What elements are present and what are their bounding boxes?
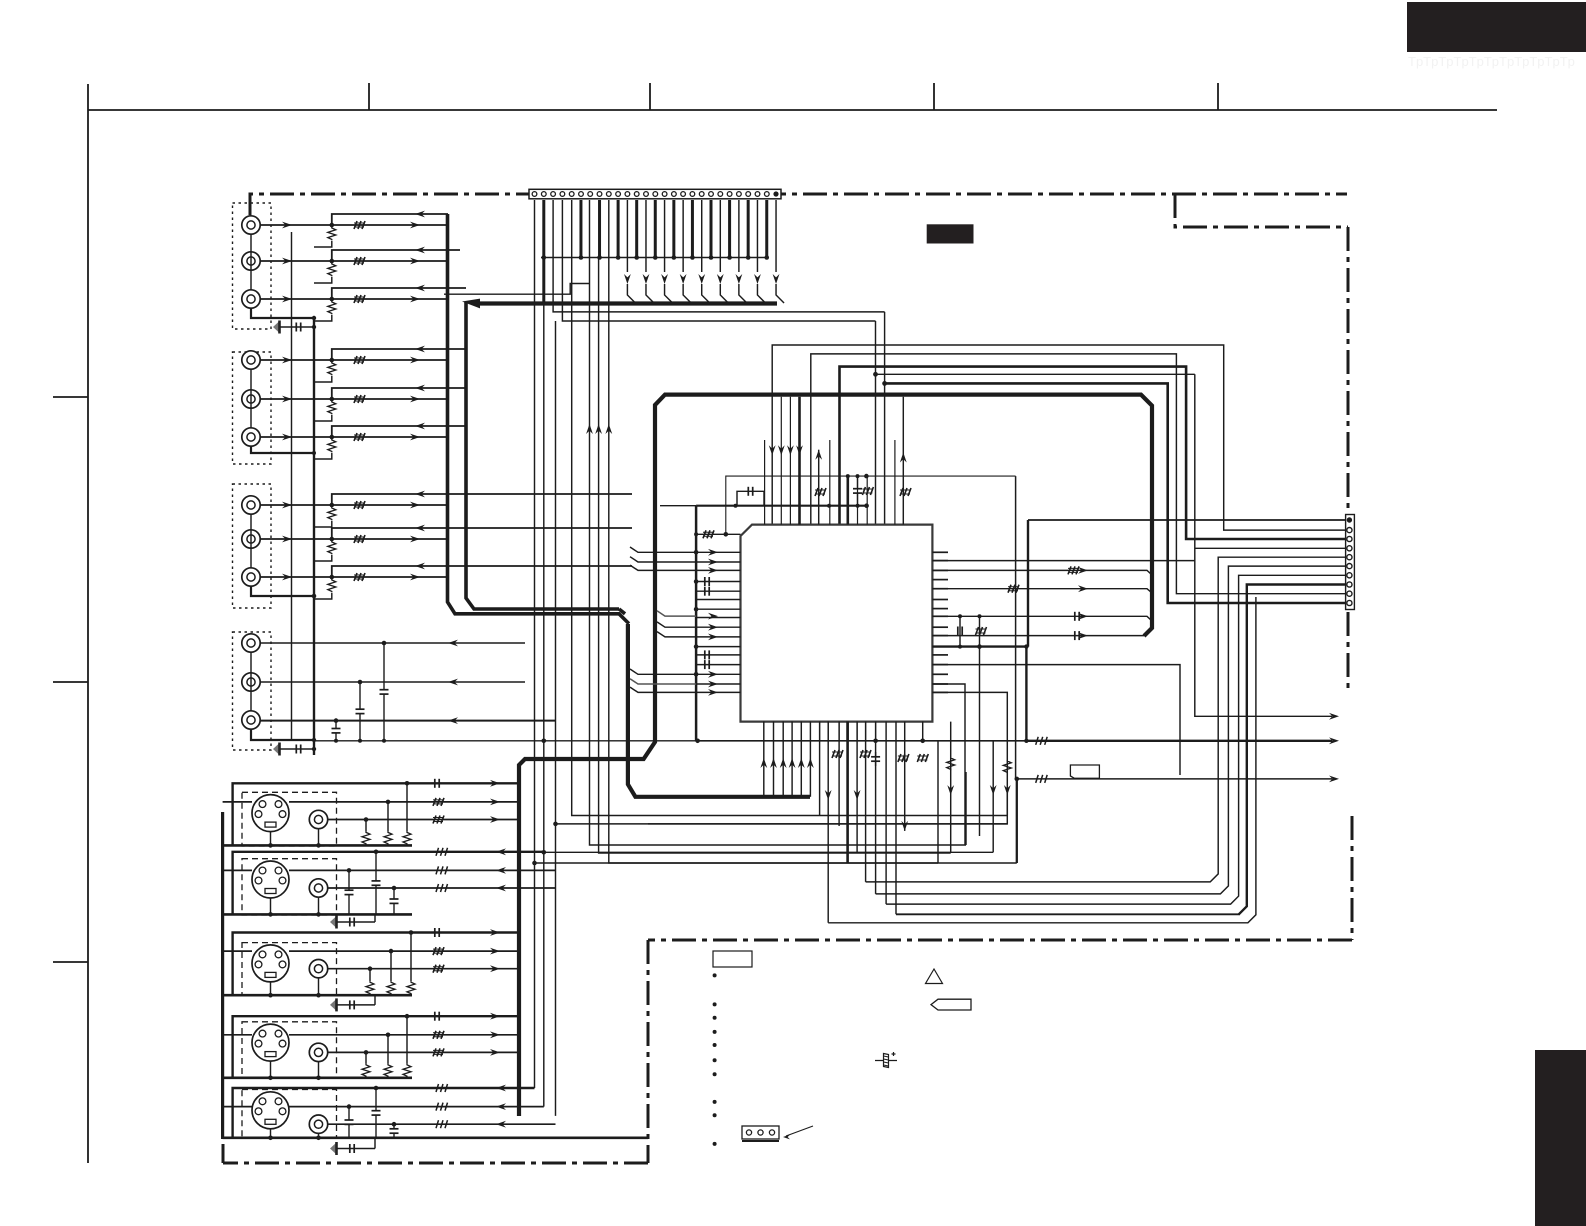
S-video DIN jack 5 xyxy=(252,1092,289,1129)
wire H2 to CN3 pin9 xyxy=(811,354,1345,594)
IC U1 right pin xyxy=(932,608,948,610)
wire RCA row signal xyxy=(260,504,447,506)
RCA group 2 dotted box xyxy=(233,352,272,464)
S-video RCA jack 4 xyxy=(309,1043,327,1061)
arrow in xyxy=(496,885,506,892)
ferrite bead on row xyxy=(354,433,365,441)
wire CN1 pin7 corridor down-east xyxy=(590,200,967,845)
S-video group 2 rca wire xyxy=(328,887,556,889)
IC bottom pin wire down xyxy=(865,722,867,741)
S-video group 1 bottom bus xyxy=(223,844,412,847)
IC U1 right pin xyxy=(932,635,948,637)
IC bottom pin wire down xyxy=(838,722,840,741)
IC top bus xyxy=(696,505,867,507)
wire IC bottom x819 down-east xyxy=(819,722,821,816)
signal arrow into IC xyxy=(708,559,718,566)
S-video RCA jack 3 xyxy=(309,960,327,978)
S-video RCA jack 5 xyxy=(309,1115,327,1133)
wire column x556 down to group4 row3 xyxy=(555,321,557,1116)
connector CN3 pin 2 xyxy=(1347,528,1352,533)
RCA jack group2 row2 xyxy=(242,390,260,408)
group4 row2 xyxy=(260,681,525,683)
connector CN3 pin 4 xyxy=(1347,546,1352,551)
resistor to bus xyxy=(328,507,336,520)
wire RCA row signal xyxy=(260,260,447,262)
wire CN1 even pin down xyxy=(747,200,750,258)
IC U1 right pin xyxy=(932,664,948,666)
RCA jack group1 row1 xyxy=(242,216,260,234)
connector CN1 pin 25 xyxy=(755,192,760,197)
marks under IC xyxy=(832,750,843,758)
connector CN3 pin 6 xyxy=(1347,564,1352,569)
wire y922 down-west xyxy=(828,597,1256,923)
signal arrow into IC xyxy=(708,567,718,574)
wire y779 vertical down west xyxy=(1016,779,1018,863)
S-video RCA jack 2 xyxy=(309,879,327,897)
S-video group 5 hook wire xyxy=(233,1088,535,1138)
board outline right edge upper xyxy=(1347,227,1350,514)
shield path thick around IC xyxy=(760,395,1152,636)
ruler tick xyxy=(933,83,935,110)
wire CN3 pin5 down-west xyxy=(866,557,1345,882)
wire IC right long lines with arrows xyxy=(932,570,1152,575)
IC U1 left pin xyxy=(696,691,740,693)
ferrite bead on row xyxy=(354,257,365,265)
thick signal bus from CN1 xyxy=(476,301,777,305)
cap drops xyxy=(375,852,377,881)
warning triangle xyxy=(926,969,943,984)
signal arrow into IC xyxy=(708,681,718,688)
connector CN1 pin 14 xyxy=(653,192,658,197)
arrow out xyxy=(490,1013,500,1020)
resistor to bus xyxy=(328,227,336,240)
connector CN1 pin 1 xyxy=(532,192,537,197)
connector CN1 pin 10 xyxy=(616,192,621,197)
S-video group 3 bottom bus xyxy=(223,994,412,997)
wire CN3 pin1 long xyxy=(1028,519,1345,521)
RC network right of IC xyxy=(959,616,961,646)
IC U1 left pin xyxy=(696,581,740,583)
ruler tick xyxy=(649,83,651,110)
group4 gnd cap xyxy=(273,743,280,755)
wire right to flag xyxy=(932,665,1180,775)
wire right y692 down xyxy=(932,692,1007,793)
connector CN1 pin 27 xyxy=(773,191,778,196)
arrow up from IC top xyxy=(815,450,822,460)
RCA thick bus B xyxy=(466,302,619,609)
connector CN1 pin 3 xyxy=(551,192,556,197)
IC U1 left pin xyxy=(696,569,740,571)
wire RCA row return xyxy=(332,388,466,399)
S-video RCA jack 1 xyxy=(309,810,327,828)
wire corridor x598 down-east xyxy=(599,258,951,854)
pointer flag symbol xyxy=(931,999,971,1010)
battery symbol xyxy=(875,1060,897,1062)
wire right y684 down xyxy=(932,684,965,845)
wire x979 down to row836 xyxy=(979,647,981,836)
IC U1 right pin xyxy=(932,626,948,628)
wire IC bottom x847 thick down xyxy=(846,722,849,863)
RCA jack group2 row3 xyxy=(242,428,260,446)
RCA group 2 vertical link xyxy=(250,369,252,428)
wire H1 to CN3 pin2 xyxy=(772,345,1345,530)
resistor to bus xyxy=(328,301,336,314)
ferrite bead on row xyxy=(354,573,365,581)
S-video DIN jack 2 xyxy=(252,861,289,898)
sub-circuit box thin xyxy=(726,476,1016,534)
arrow out xyxy=(490,1049,500,1056)
IC U1 left pin xyxy=(696,673,740,675)
wire CN1 even pin down xyxy=(617,200,620,258)
signal arrow into IC xyxy=(708,549,718,556)
board outline right edge lower xyxy=(1347,612,1350,690)
connector CN1 pin 13 xyxy=(644,192,649,197)
wire CN1 signal down with arrow xyxy=(775,200,777,272)
ground bus RCA mid xyxy=(313,318,315,755)
wire H5 thick to CN3 pin10 xyxy=(884,312,886,525)
wire CN1 pin5 down-east xyxy=(572,200,1008,816)
resistor to bus xyxy=(328,439,336,452)
arrow out xyxy=(490,816,500,823)
arrow in xyxy=(496,1121,506,1128)
IC bottom pin wire down xyxy=(875,722,877,741)
board outline bottom edge left xyxy=(223,1162,648,1165)
arrow out xyxy=(490,799,500,806)
S-video group 3 dashed box xyxy=(242,943,337,996)
S-video group 4 rca wire xyxy=(328,1051,519,1053)
wire CN1 signal down with arrow xyxy=(756,200,758,272)
wire IC bottom x857 down arrow xyxy=(856,722,858,853)
wire CN1 signal down with arrow xyxy=(701,200,703,272)
IC bottom pin riser with arrow xyxy=(763,722,765,797)
S-video group 2 dashed box xyxy=(242,859,337,915)
wire CN1 pin4 down east H321 xyxy=(562,200,875,321)
wire CN1 pin2b down thin xyxy=(543,304,545,1107)
RCA jack group1 row3 xyxy=(242,290,260,308)
RCA jack group4 row2 xyxy=(242,673,260,691)
wire CN1 signal down with arrow xyxy=(645,200,647,272)
IC U1 right pin xyxy=(932,673,948,675)
resistor to bus xyxy=(328,401,336,414)
board outline bottom edge right xyxy=(648,939,1352,942)
group4 bottom bus xyxy=(314,740,696,742)
IC U1 left pin xyxy=(696,664,740,666)
wire RCA row return xyxy=(332,288,466,299)
IC bottom pin riser with arrow xyxy=(782,722,784,797)
connector CN1 pin 18 xyxy=(690,192,695,197)
board outline sub-board notch xyxy=(1175,194,1348,227)
pointer arrow to connector xyxy=(786,1126,813,1136)
wire CN1 even pin down xyxy=(579,200,582,258)
IC U1 top pin wire from shield xyxy=(798,397,801,525)
resistor left of IC xyxy=(703,530,714,538)
shield path thick left side xyxy=(519,395,760,1116)
wire CN1 signal down with arrow xyxy=(682,200,684,272)
wire CN1 signal down with arrow xyxy=(664,200,666,272)
ferrite bead on row xyxy=(354,395,365,403)
connector CN3 pin 1 xyxy=(1347,517,1352,522)
IC U1 left pin xyxy=(696,683,740,685)
RCA group 3 dotted box xyxy=(233,484,272,608)
wire IC bottom x904 down arrow end xyxy=(904,722,906,831)
black label box near CN1 xyxy=(927,224,974,243)
top ruler line xyxy=(88,109,1497,111)
input lines to IC from west xyxy=(630,547,696,552)
IC U1 right pin xyxy=(932,569,948,571)
arrow in xyxy=(496,848,506,855)
IC bottom ground bus thick xyxy=(628,624,810,797)
cap and resistor drops xyxy=(434,1012,436,1021)
wire CN1 even pin down xyxy=(728,200,731,258)
thick wire y646 to down xyxy=(1025,647,1027,741)
wire IC bottom x896 down xyxy=(895,722,897,915)
RCA group 1 dotted box xyxy=(233,203,272,329)
board outline right edge bottom part xyxy=(1351,816,1354,940)
S-video group 4 bottom bus xyxy=(223,1077,412,1080)
connector CN1 top strip body xyxy=(529,189,781,199)
wire RCA row return xyxy=(332,494,632,505)
capacitor row left of IC xyxy=(704,577,706,586)
resistor x950 xyxy=(947,757,955,770)
arrow in xyxy=(496,867,506,874)
wire CN1 even pin down xyxy=(710,200,713,258)
RCA group 3 vertical link xyxy=(250,514,252,568)
page corner black tab top-right xyxy=(1407,2,1586,52)
wire vertical x1194 down to out arrow xyxy=(1195,374,1332,716)
svg-text:TpTpTpTpTpTpTpTpTpTpTp: TpTpTpTpTpTpTpTpTpTpTp xyxy=(1408,54,1575,69)
S-video group 4 mid wire xyxy=(289,1034,519,1036)
RCA jack group3 row3 xyxy=(242,568,260,586)
arrows down into IC top area xyxy=(769,445,776,455)
IC U1 top pin wire xyxy=(764,440,766,525)
S-video group 1 mid wire xyxy=(289,801,519,803)
IC U1 right pin xyxy=(932,691,948,693)
cap and resistor drops xyxy=(434,928,436,937)
wire RCA row signal xyxy=(260,398,447,400)
IC bottom pin riser with arrow xyxy=(800,722,802,797)
board outline step vertical xyxy=(647,940,650,1163)
wire IC bottom x922 down xyxy=(922,722,924,741)
connector CN3 pin 8 xyxy=(1347,582,1352,587)
IC U1 top pin wire from shield xyxy=(789,397,791,525)
IC U1 right pin xyxy=(932,560,948,562)
flag label box xyxy=(1070,765,1099,778)
wire row 836 east xyxy=(556,823,1008,825)
connector CN1 pin 2 xyxy=(541,192,546,197)
caps on IC top lines xyxy=(857,476,859,489)
IC U1 top pin wire xyxy=(866,476,868,524)
margin tick xyxy=(53,396,88,398)
connector CN3 pin 10 xyxy=(1347,600,1352,605)
note label box xyxy=(713,951,752,967)
wire CN1 even pin down xyxy=(672,200,675,258)
margin tick xyxy=(53,961,88,963)
IC bottom pin riser with arrow xyxy=(791,722,793,797)
cap drops xyxy=(375,1088,377,1111)
wire x1007 down arrow xyxy=(648,793,1007,824)
3 pin connector icon xyxy=(742,1126,779,1139)
IC U1 left pin xyxy=(696,654,740,656)
wire row 863 east xyxy=(535,862,1017,864)
S-video group 1 hook wire xyxy=(233,783,519,845)
connector CN3 pin 3 xyxy=(1347,536,1352,541)
S-video group 4 dashed box xyxy=(242,1022,337,1079)
S-video left ground bus xyxy=(221,812,224,1139)
wire RCA row return xyxy=(332,250,460,261)
ruler tick xyxy=(368,83,370,110)
S-video group 5 rca wire xyxy=(328,1123,556,1125)
IC bottom pin riser with arrow xyxy=(809,722,811,797)
S-video group 1 dashed box xyxy=(242,792,337,846)
S-video group 3 stubs xyxy=(270,982,272,995)
board outline top edge xyxy=(250,194,1347,215)
wire IC bottom x828 down arrow xyxy=(827,722,829,923)
resistor to bus xyxy=(328,541,336,554)
wire CN1 signal down with arrow xyxy=(738,200,740,272)
S-video group 2 bottom bus xyxy=(223,913,412,916)
connector CN1 pin 17 xyxy=(681,192,686,197)
IC U1 left pin xyxy=(696,636,740,638)
IC U1 top pin wire from shield xyxy=(780,397,782,525)
cap and resistor drops xyxy=(434,779,436,788)
wire out right y741 thick xyxy=(696,740,1030,742)
group4 row3 xyxy=(260,720,555,722)
ferrite bead on row xyxy=(354,501,365,509)
page corner black tab bottom-right xyxy=(1535,1050,1586,1226)
gnd marks s-video xyxy=(330,916,337,928)
wire RCA row signal xyxy=(260,538,447,540)
RCA jack group3 row1 xyxy=(242,496,260,514)
IC U1 right pin xyxy=(932,588,948,590)
wire CN1 even pin down xyxy=(691,200,694,258)
connector CN1 pin 12 xyxy=(634,192,639,197)
wire RCA row signal xyxy=(260,298,447,300)
IC U1 right pin xyxy=(932,579,948,581)
wire CN1 pin2b down thick to bus xyxy=(542,200,545,304)
IC bottom pin wire down xyxy=(846,722,848,741)
IC U1 right pin xyxy=(932,599,948,601)
IC U1 right pin xyxy=(932,654,948,656)
group4 row1 xyxy=(260,642,525,644)
wire RCA row signal xyxy=(260,436,447,438)
wire RCA row return xyxy=(332,214,448,225)
wire RCA row return xyxy=(332,349,466,360)
board outline left edge bottom xyxy=(222,1144,225,1163)
S-video group 2 stubs xyxy=(270,898,272,914)
connector CN1 pin 22 xyxy=(727,192,732,197)
S-video group 1 stubs xyxy=(270,832,272,846)
S-video right thick bus x519 xyxy=(517,765,521,1116)
wire CN1 even pin down xyxy=(654,200,657,258)
connector CN1 pin 15 xyxy=(662,192,667,197)
wire RCA row signal xyxy=(260,224,447,226)
left margin line xyxy=(87,84,89,1163)
connector CN1 pin 8 xyxy=(597,192,602,197)
wire CN1 even pin down xyxy=(765,200,768,258)
S-video group 1 rca wire xyxy=(328,819,519,821)
connector CN1 pin 6 xyxy=(579,192,584,197)
ferrite bead on row xyxy=(354,535,365,543)
IC U1 right pin xyxy=(932,646,948,648)
resistor to bus xyxy=(328,579,336,592)
RCA jack group2 row1 xyxy=(242,351,260,369)
connector CN3 pin 5 xyxy=(1347,555,1352,560)
IC bottom pin wire down xyxy=(856,722,858,741)
wire IC right y560 east xyxy=(932,560,1194,562)
CN1 pin bus horizontal xyxy=(541,257,768,259)
wire CN3 pin7 down-west xyxy=(886,575,1345,904)
IC left feed bus xyxy=(695,506,698,741)
wire IC bottom x875 down xyxy=(875,722,877,894)
connector CN1 pin 24 xyxy=(746,192,751,197)
vertical from CN3-pin1 wire down xyxy=(1027,520,1029,647)
wire RCA row signal xyxy=(260,359,447,361)
IC U1 left pin xyxy=(696,599,740,601)
connector CN1 pin 20 xyxy=(709,192,714,197)
wire x993 net down xyxy=(992,826,994,852)
S-video group 5 bottom bus xyxy=(223,1137,648,1140)
S-video DIN jack 3 xyxy=(252,945,289,982)
arrow out xyxy=(490,948,500,955)
wire RCA row return xyxy=(332,528,632,539)
connector CN1 pin 4 xyxy=(560,192,565,197)
note bullets xyxy=(713,973,717,977)
RCA jack group4 row3 xyxy=(242,711,260,729)
signal arrow into IC xyxy=(708,689,718,696)
arrow in xyxy=(496,1085,506,1092)
inner link bus RCA xyxy=(291,232,293,740)
signal arrow into IC xyxy=(708,624,718,631)
S-video group 3 rca wire xyxy=(328,968,519,970)
ferrite bead on row xyxy=(354,295,365,303)
wire CN3 pin6 down-west xyxy=(876,566,1345,894)
signal arrow into IC xyxy=(708,634,718,641)
IC U1 top pin wire xyxy=(829,440,831,525)
IC bottom pin wire down xyxy=(827,722,829,741)
wire CN1 pin1 deep down xyxy=(534,200,536,1088)
connector CN3 right body xyxy=(1346,515,1355,610)
IC U1 top pin wire xyxy=(894,440,896,525)
IC U1 left pin xyxy=(696,646,740,648)
ruler tick xyxy=(1217,83,1219,110)
wire CN1 even pin down xyxy=(635,200,638,258)
wire CN3 pin8 thick down-west xyxy=(1239,585,1345,915)
wire CN1 pin3 down east H311 xyxy=(553,200,885,312)
IC U1 top pin wire xyxy=(857,476,859,524)
crystal capacitor top-left of IC xyxy=(737,491,764,505)
connector CN1 pin 26 xyxy=(764,192,769,197)
RCA thick bus A xyxy=(448,214,629,624)
connector CN1 pin 23 xyxy=(737,192,742,197)
RCA jack group1 row2 xyxy=(242,252,260,270)
resistor to bus xyxy=(328,362,336,375)
connector CN1 pin 5 xyxy=(569,192,574,197)
IC bottom pin wire down xyxy=(819,722,821,741)
S-video group 2 mid wire xyxy=(289,869,556,871)
IC U1 left pin xyxy=(696,617,740,619)
S-video DIN jack 4 xyxy=(252,1024,289,1061)
wire RCA row return xyxy=(332,426,466,437)
wire RCA row return xyxy=(332,566,632,577)
wire RCA row signal xyxy=(260,576,447,578)
arrow out xyxy=(490,780,500,787)
IC U1 right pin xyxy=(932,551,948,553)
signal arrow into IC xyxy=(708,613,718,620)
arrow out xyxy=(490,965,500,972)
resistor to bus xyxy=(328,263,336,276)
ferrite bead on row xyxy=(354,221,365,229)
arrow out xyxy=(490,1031,500,1038)
